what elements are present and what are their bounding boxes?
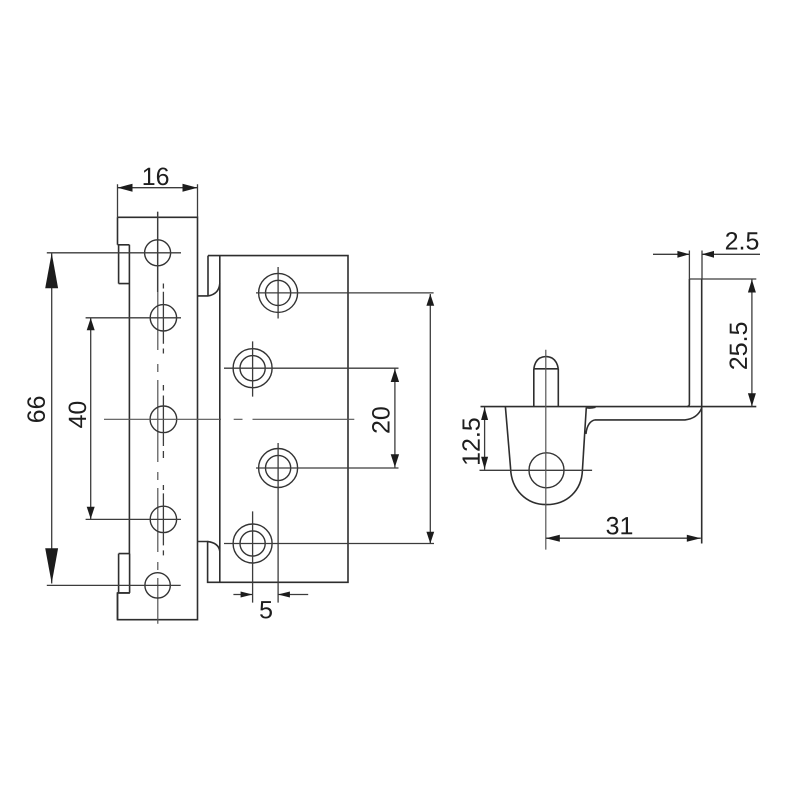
hole D crosshair [224,511,434,602]
dimension 40 arrows [87,318,95,330]
dimension 31 line [546,537,701,539]
side view: bar right edge extending as extension line [701,279,703,544]
hole H4 crosshair [86,485,181,555]
dimension 31 text [607,517,633,535]
hole H2 [150,305,176,331]
dimension 25.5 text [729,323,747,369]
dimension 66 line [51,253,53,584]
unlabeled 50 dimension line [429,294,431,544]
side view: bar top cap and 25.5 top extension [689,278,756,280]
hole A inner [266,280,291,305]
dimension 66 arrows [45,253,58,288]
dimension 16 text [144,168,169,186]
hole C crosshair [256,443,399,603]
narrow leaf left edge details [118,245,130,620]
hole B outer [233,349,272,388]
dimension 16 extension lines [118,184,198,217]
side view: S-bend lower curve [586,420,595,434]
hole H5 [145,573,170,598]
narrow leaf outline [118,217,198,619]
hole H4 [150,506,176,532]
dimension 16 arrows [118,184,133,192]
side view: cup left wall [505,407,510,469]
dimension 12.5 text [462,418,480,464]
dimension 20 line [394,368,396,468]
dimension 16 line [118,187,198,189]
hole A outer [259,273,298,312]
dimension 12.5 arrows [481,407,488,420]
dimension 20 arrows [391,369,399,382]
dimension 2.5 arrows [677,251,689,258]
hole B crosshair [224,341,399,396]
dimension 20 text [372,407,390,433]
stud body [534,369,559,407]
side view: cup bottom arc [511,469,583,505]
fold line top arc [208,284,220,296]
dimension 5 arrows [241,592,253,598]
hole H5 crosshair [47,584,181,586]
dimension 2.5 lines [653,253,760,255]
hole C outer [259,449,298,488]
dimension 40 text [69,402,87,428]
hole H1 crosshair [47,212,181,292]
wide leaf fold line [219,256,221,583]
side view: arm top surface line with extensions [481,406,757,408]
hole D inner [240,531,265,556]
hole C inner [266,455,291,480]
hole H3 crosshair [162,385,164,458]
wide leaf outline [198,256,349,583]
side view: cup hole horizontal crosshair / 12.5 extension [480,469,593,471]
dimension 2.5 extension lines [689,251,702,280]
dimension 5 text [260,601,272,618]
dimension 31 arrows [546,535,560,542]
narrow leaf chain centerline [157,212,159,624]
dimension 2.5 text [726,232,758,250]
side view: cup hole [529,453,564,488]
fold line bottom arc [208,542,220,552]
stud dome [534,357,559,369]
hole H2 crosshair [86,284,181,354]
side view: arm bottom line with outer bend fillet [595,408,702,420]
stud / cup centerline [545,350,547,550]
side view: S-bend inner wedge line [586,406,595,409]
dimension 25.5 line [751,279,753,407]
wide leaf horizontal chain centerline [104,418,354,420]
side view: vertical bar left edge with inner fillet [687,279,689,407]
hole H1 [145,240,171,266]
dimension 40 line [90,318,92,519]
dimension 5 lines [233,594,308,596]
dimension 12.5 line [484,407,486,470]
hole A crosshair [256,267,434,319]
hole B inner [240,356,265,381]
side view: cup right wall [582,407,586,470]
unlabeled 50 dimension arrows [426,294,434,306]
hole D outer [233,524,272,563]
hole H3 [150,406,177,433]
dimension 66 text [27,397,45,422]
dimension 25.5 arrows [748,280,756,293]
